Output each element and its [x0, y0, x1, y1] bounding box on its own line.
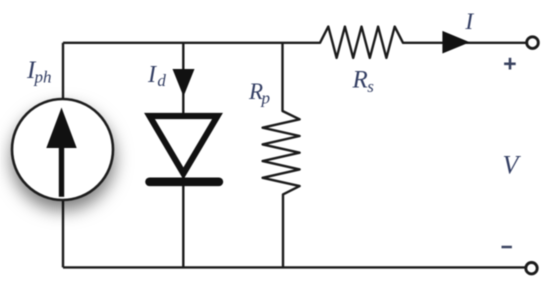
svg-text:ph: ph: [34, 67, 52, 86]
svg-text:I: I: [147, 62, 157, 88]
svg-text:d: d: [157, 71, 166, 90]
svg-text:s: s: [367, 77, 374, 96]
svg-text:R: R: [352, 66, 368, 93]
svg-text:p: p: [261, 89, 271, 108]
svg-text:I: I: [464, 9, 474, 35]
